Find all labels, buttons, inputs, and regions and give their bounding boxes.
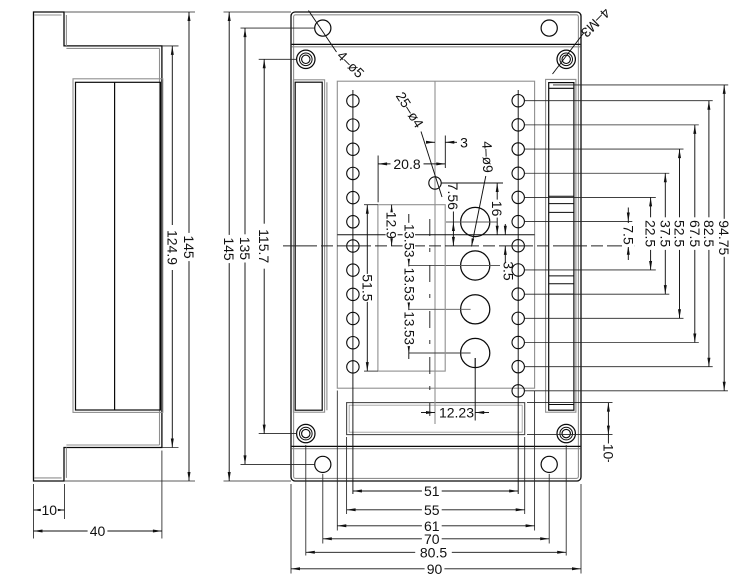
phi9 hole 1 horizontal tick	[446, 221, 498, 223]
hole phi4 right column #2	[512, 119, 524, 131]
extension line step bottom	[162, 447, 179, 449]
dim 20.8	[377, 156, 379, 203]
extension line x64 bottom	[64, 484, 66, 519]
extension line step top	[162, 45, 179, 47]
screw hole M3 #2 at (566.2,59.3)	[557, 50, 575, 68]
hole phi4 right column #4	[512, 167, 524, 179]
hole phi4 left column #4	[347, 167, 359, 179]
right rail outer	[546, 79, 576, 412]
left rail outer	[293, 80, 324, 412]
right rail inner	[549, 83, 574, 411]
svg-text:94.75: 94.75	[716, 220, 732, 255]
svg-text:22.5: 22.5	[643, 220, 659, 247]
svg-text:7.56: 7.56	[445, 183, 461, 210]
bottom extension lines	[290, 484, 292, 574]
side view top body bevel line	[66, 47, 159, 49]
screw hole M3 #3 at (305.8,433.6)	[297, 424, 315, 442]
side view bottom flange inner line	[34, 477, 61, 479]
right rail stripe block B	[549, 275, 574, 277]
dim 51 bottom	[353, 490, 518, 492]
dim 94.75 right	[723, 85, 725, 391]
front view inner bevel rect	[294, 15, 579, 479]
left rail shadow line	[326, 82, 328, 410]
dim 10 slot	[607, 403, 609, 435]
side view bottom step bevel	[65, 448, 67, 478]
hole phi9 #2	[461, 251, 490, 280]
svg-text:82.5: 82.5	[701, 220, 717, 247]
dim 145 side view	[188, 12, 190, 481]
front view top flange line dark	[292, 43, 581, 45]
right rail top cap line	[549, 87, 574, 89]
gray keepout rect	[378, 205, 445, 371]
svg-text:90: 90	[427, 561, 443, 577]
dim 22.5 right	[650, 197, 652, 270]
svg-text:3.5: 3.5	[500, 261, 516, 281]
right rail bottom cap line	[549, 404, 574, 406]
side view bottom body bevel line	[66, 444, 159, 446]
dim 37.5 right	[664, 173, 666, 294]
bottom slot rect	[347, 403, 525, 435]
svg-text:115.7: 115.7	[256, 229, 272, 263]
svg-text:135: 135	[237, 237, 253, 261]
note 4-phi9 leader	[472, 176, 486, 247]
left hole column center line	[352, 90, 354, 494]
svg-text:12.9: 12.9	[384, 212, 400, 239]
front view outer rect	[291, 12, 581, 481]
screw hole M3 #1 at (305.8,59.3)	[297, 50, 315, 68]
dim 3.5	[504, 224, 506, 235]
ext lines left bottom	[224, 480, 292, 482]
hole phi4 right column #6	[512, 215, 524, 227]
hole phi5 #1 at (322.8,28.1)	[315, 20, 331, 36]
dim 145 front view	[228, 12, 230, 481]
svg-text:37.5: 37.5	[657, 220, 673, 247]
note 4-M3 leader	[553, 33, 585, 75]
side view right edge bevel	[159, 48, 161, 445]
hole phi9 #4	[461, 338, 490, 367]
dim 67.5 right	[694, 125, 696, 343]
svg-text:55: 55	[424, 502, 440, 518]
dim 7.5 right	[627, 208, 629, 222]
front view bottom flange line gray	[292, 448, 581, 450]
dim 80.5 bottom	[306, 551, 566, 553]
hole phi4 right column #8	[512, 264, 524, 276]
note 4-phi5 leader	[309, 11, 337, 53]
front view bottom flange line dark	[292, 445, 581, 447]
dim 61 bottom	[337, 525, 534, 527]
screw hole M3 #4 at (566.2,433.6)	[557, 424, 575, 442]
svg-text:12.23: 12.23	[439, 405, 474, 421]
hole phi4 right column #13	[512, 385, 524, 397]
side view outer profile	[34, 12, 162, 481]
hole phi4 right column #12	[512, 360, 524, 372]
hole phi4 left column #11	[347, 337, 359, 349]
svg-text:13.53: 13.53	[401, 311, 416, 345]
svg-text:13.53: 13.53	[401, 268, 416, 302]
ext lines from right holes	[525, 100, 713, 102]
dim 7.56	[452, 212, 454, 246]
ext line x445.3 for dims 3/20.8	[444, 136, 446, 169]
dim 12.9	[391, 205, 393, 246]
ext line y234.8 (3.5 offset)	[337, 234, 534, 236]
hole phi4 left column #2	[347, 119, 359, 131]
dim 115.7 front view	[263, 59, 265, 433]
hole phi4 left column #9	[347, 288, 359, 300]
side view cavity inner rect	[76, 82, 161, 410]
hole phi4 right column #1	[512, 95, 524, 107]
bottom slot inner bevel	[349, 405, 522, 432]
hole phi4 left column #5	[347, 191, 359, 203]
vertical dashed centerline x430	[429, 219, 431, 416]
svg-text:40: 40	[90, 523, 106, 539]
horizontal centerline	[283, 245, 635, 247]
side view cavity divider	[114, 82, 116, 410]
svg-text:4–ø9: 4–ø9	[479, 141, 495, 173]
note 25-phi4 leader	[421, 132, 442, 198]
dim 40 side view	[34, 530, 162, 532]
hole phi4 right column #11	[512, 336, 524, 348]
dim 3	[426, 141, 435, 144]
hole phi4 right column #3	[512, 143, 524, 155]
ext line panel top right for 94.75	[553, 84, 728, 86]
extension line x161.9 bottom	[161, 451, 163, 539]
front view top flange line gray	[292, 46, 581, 48]
svg-text:145: 145	[221, 237, 237, 261]
extension line bottom y481	[64, 480, 195, 482]
svg-text:10: 10	[600, 444, 616, 460]
hole phi4 left column #10	[347, 312, 359, 324]
hole phi9 #1	[461, 207, 490, 236]
phi9 hole 4 vertical tick	[474, 358, 476, 368]
hole phi4 left column #12	[347, 361, 359, 373]
dim 70 bottom	[323, 538, 549, 540]
hole phi5 #2 at (549.2,28.1)	[541, 20, 557, 36]
recessed panel rect	[337, 81, 534, 388]
svg-text:13.53: 13.53	[401, 224, 416, 258]
dim 124.9 side view	[171, 46, 173, 448]
svg-text:67.5: 67.5	[687, 220, 703, 247]
big hole column line	[474, 358, 476, 421]
side view cavity outer rect	[73, 79, 163, 413]
svg-text:10: 10	[42, 502, 58, 518]
extension line top y12	[64, 11, 195, 13]
side view top flange inner line	[34, 14, 61, 16]
hole phi9 #3	[461, 295, 490, 324]
svg-text:51: 51	[424, 483, 440, 499]
dim 90 bottom	[291, 568, 581, 570]
dim 16	[496, 183, 498, 235]
side view top step bevel	[65, 15, 67, 46]
ext line from mid hole right	[442, 182, 504, 184]
phi9 hole 3 horizontal tick	[409, 308, 471, 310]
hole phi4 middle (25th)	[429, 177, 441, 189]
right rail stripe block A	[549, 195, 574, 197]
hole phi4 left column #1	[347, 95, 359, 107]
svg-text:124.9: 124.9	[164, 230, 180, 265]
svg-text:3: 3	[460, 134, 468, 150]
svg-text:51.5: 51.5	[359, 274, 375, 301]
dim 12.23	[421, 412, 435, 414]
dim 135 front view	[244, 28, 246, 464]
hole phi4 right column #5	[512, 191, 524, 203]
extension line x33.5 bottom	[33, 484, 35, 539]
hole phi4 right column #10	[512, 312, 524, 324]
hole phi4 left column #6	[347, 216, 359, 228]
hole phi5 #4 at (549.2,464.4)	[541, 456, 557, 472]
svg-text:52.5: 52.5	[672, 220, 688, 247]
svg-text:7.5: 7.5	[620, 225, 636, 245]
dim 10 side view	[34, 509, 65, 511]
dim 82.5 right	[708, 101, 710, 367]
phi9 hole 2 horizontal tick	[409, 265, 500, 267]
dim chain 13.53	[408, 214, 410, 359]
hole phi4 left column #3	[347, 143, 359, 155]
right hole column center line	[517, 90, 519, 494]
svg-text:20.8: 20.8	[393, 156, 420, 172]
hole phi4 left column #8	[347, 264, 359, 276]
left rail inner	[295, 82, 322, 410]
ext lines for dim 10	[527, 402, 613, 404]
phi9 hole 4 horizontal tick	[409, 352, 471, 354]
hole phi4 right column #9	[512, 288, 524, 300]
ext lines left top	[224, 11, 292, 13]
dim 55 bottom	[347, 509, 525, 511]
dim 52.5 right	[679, 149, 681, 318]
dim 51.5	[364, 204, 378, 206]
hole phi4 right column #7	[512, 240, 524, 252]
mid column line	[434, 81, 436, 424]
hole phi4 left column #7	[347, 240, 359, 252]
svg-text:145: 145	[181, 235, 197, 259]
svg-text:80.5: 80.5	[420, 544, 447, 560]
svg-text:16: 16	[489, 201, 505, 217]
hole phi5 #3 at (322.8,464.4)	[315, 456, 331, 472]
